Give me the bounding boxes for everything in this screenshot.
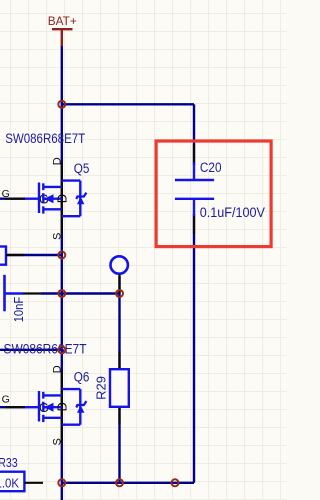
svg-text:D: D <box>54 194 69 203</box>
no-connect circle <box>111 256 128 273</box>
svg-text:10nF: 10nF <box>11 297 26 323</box>
svg-text:G: G <box>2 394 10 406</box>
resistor R29 <box>110 369 129 407</box>
svg-text:D: D <box>51 365 63 373</box>
wire BAT+ vertical main rail x=62 <box>61 45 63 500</box>
R33 pin <box>25 482 44 484</box>
transistor Q5 pins (black) <box>5 163 62 234</box>
wire C20 lower branch to bottom rail <box>193 214 195 483</box>
junction (62,255) <box>58 252 65 259</box>
resistor R29 pins <box>118 351 120 424</box>
wire bottom horizontal <box>62 482 194 484</box>
capacitor 10nF plate <box>3 275 6 312</box>
svg-text:C20: C20 <box>200 160 222 175</box>
svg-text:0.1uF/100V: 0.1uF/100V <box>200 205 265 220</box>
wire circle/R29 vertical branch x=119.5 <box>118 276 120 483</box>
Q6 body diode <box>77 405 84 413</box>
svg-text:1.0K: 1.0K <box>0 476 20 490</box>
capacitor C20 <box>175 162 214 216</box>
junction (119.5,482.5) <box>116 479 123 486</box>
Q5 arrow <box>44 194 53 203</box>
wire C20 vertical branch <box>193 104 195 165</box>
capacitor 10nF pin <box>23 292 41 294</box>
svg-text:S: S <box>51 233 63 240</box>
transistor Q5 body <box>25 181 80 217</box>
svg-text:G: G <box>2 188 10 200</box>
wire 10nF row y=293.5 <box>41 292 120 294</box>
svg-text:Q6: Q6 <box>74 369 90 384</box>
svg-text:Q5: Q5 <box>74 161 90 176</box>
Q5 body diode <box>77 197 84 205</box>
R33 value edit box <box>0 472 24 492</box>
junction (62,349.8) <box>58 346 65 353</box>
junction (62,105) <box>58 101 65 108</box>
capacitor 10nF lead <box>5 292 24 294</box>
svg-text:S: S <box>51 438 63 445</box>
Q6 arrow <box>44 403 53 412</box>
wire top horizontal to C20 branch <box>62 103 194 105</box>
left box pin <box>6 254 24 256</box>
wire Q6 gate stub <box>0 406 25 408</box>
circle pin <box>118 275 120 294</box>
svg-text:R33: R33 <box>0 456 18 470</box>
transistor Q6 body <box>25 389 80 425</box>
junction (62,293.5) <box>58 290 65 297</box>
svg-text:SW086R68E7T: SW086R68E7T <box>5 131 85 146</box>
wire Q5 gate stub <box>0 197 25 199</box>
svg-text:R29: R29 <box>94 376 109 400</box>
capacitor C20 pins (black) <box>193 144 195 234</box>
left edge component box <box>0 247 6 265</box>
wire left to rail y=349.8 <box>0 349 62 351</box>
junction (62,482.5) <box>58 479 65 486</box>
wire left box to rail y=255 <box>0 254 62 256</box>
svg-text:D: D <box>51 157 63 165</box>
svg-text:BAT+: BAT+ <box>48 14 77 28</box>
red highlight box <box>156 141 271 247</box>
junction (119.5,293.5) <box>116 290 123 297</box>
transistor Q6 pins (black) <box>5 372 62 443</box>
svg-text:D: D <box>54 402 69 411</box>
svg-text:SW086R68E7T: SW086R68E7T <box>4 342 87 357</box>
power symbol BAT+ <box>52 29 73 46</box>
junction (175,482.5) <box>172 479 179 486</box>
